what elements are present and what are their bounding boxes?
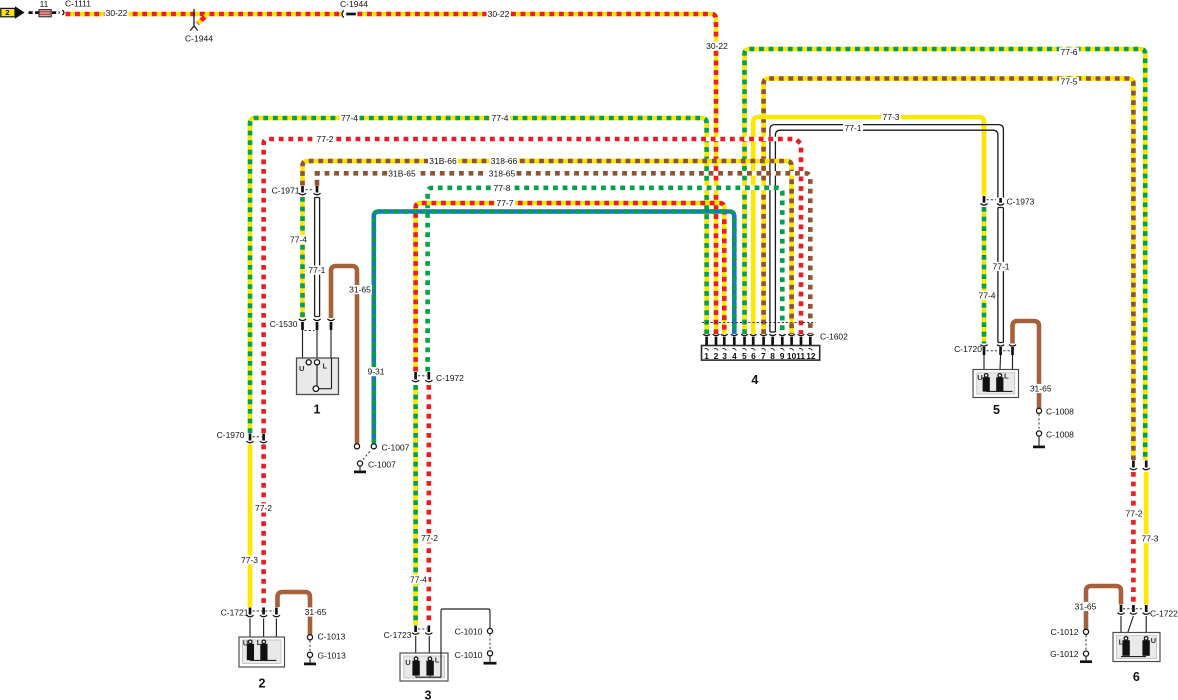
svg-text:30-22: 30-22 xyxy=(106,8,128,18)
wire 77-2 (white/red) right side to C-1722, lamp 6 xyxy=(1131,472,1136,605)
svg-text:L: L xyxy=(1119,637,1124,646)
wire name labels on gaps xyxy=(105,8,1161,617)
splice C-1944 diagonal stub on 30-22 xyxy=(190,9,206,31)
connector C-1973 xyxy=(980,196,1004,205)
svg-text:C-1602: C-1602 xyxy=(820,332,848,342)
svg-text:4: 4 xyxy=(732,351,737,361)
svg-text:C-1722: C-1722 xyxy=(1150,609,1178,619)
svg-text:C-1973: C-1973 xyxy=(1007,197,1035,207)
svg-text:G-1012: G-1012 xyxy=(1050,649,1079,659)
wire 31-65 (solid brown) lamp 1 to C-1007 xyxy=(331,266,357,444)
svg-text:11: 11 xyxy=(796,351,805,361)
svg-text:6: 6 xyxy=(1133,670,1140,684)
svg-text:77-2: 77-2 xyxy=(421,533,438,543)
svg-text:C-1007: C-1007 xyxy=(382,443,410,453)
svg-text:C-1971: C-1971 xyxy=(272,186,300,196)
svg-text:L: L xyxy=(257,638,262,647)
svg-text:77-1: 77-1 xyxy=(992,262,1009,272)
ground branch 31-65 / C-1013 / G-1013 xyxy=(304,635,316,664)
svg-text:3: 3 xyxy=(722,351,727,361)
svg-text:C-1944: C-1944 xyxy=(340,0,368,9)
svg-text:U: U xyxy=(299,364,305,373)
wire 77-5 (yellow/brown) top-right loop, pin 7 to right side xyxy=(764,79,1134,461)
svg-text:77-2: 77-2 xyxy=(316,134,333,144)
svg-text:C-1007: C-1007 xyxy=(368,460,396,470)
connector C-1944 inline xyxy=(342,10,356,17)
connector C-1971 xyxy=(299,186,321,195)
svg-text:10: 10 xyxy=(787,351,797,361)
svg-text:77-4: 77-4 xyxy=(341,113,358,123)
svg-text:C-1013: C-1013 xyxy=(318,632,346,642)
svg-text:77-7: 77-7 xyxy=(496,198,513,208)
wire 77-2 (white/red) left run, C-1970 to C-1602 pin 11 xyxy=(264,139,801,433)
svg-text:C-1111: C-1111 xyxy=(65,0,91,9)
wire 77-1 (white double line) C-1973 to C-1720, lamp 5 xyxy=(998,208,1004,343)
svg-text:31-65: 31-65 xyxy=(1030,384,1052,394)
svg-text:318-66: 318-66 xyxy=(491,156,518,166)
lamp assembly 2 xyxy=(239,637,285,667)
wire 31-65 (solid brown) C-1721 to C-1013 xyxy=(278,592,311,635)
svg-text:6: 6 xyxy=(751,351,756,361)
svg-text:77-3: 77-3 xyxy=(241,555,258,565)
wire 31-65 (solid brown) C-1720 to C-1008 xyxy=(1013,321,1040,408)
ground branch 31-65 / C-1008 xyxy=(1033,408,1045,447)
wire 77-4 (yellow/green) C-1972 to C-1723, lamp 3 xyxy=(413,385,418,625)
svg-text:2: 2 xyxy=(5,8,9,17)
wire 30-22 fuse feed (yellow/red) top run and drop to C-1602 pin 2 xyxy=(66,14,717,334)
svg-text:77-4: 77-4 xyxy=(978,291,995,301)
connector C-1722 xyxy=(1117,605,1149,657)
svg-text:31-65: 31-65 xyxy=(1075,602,1097,612)
svg-text:U: U xyxy=(1151,636,1157,645)
svg-text:L: L xyxy=(435,656,440,665)
svg-text:C-1530: C-1530 xyxy=(270,319,298,329)
svg-text:31-65: 31-65 xyxy=(305,607,327,617)
svg-text:C-1721: C-1721 xyxy=(221,608,249,618)
wire 9-31 (blue/green) C-1007 to C-1602 pin 4 xyxy=(374,212,735,444)
wire 77-3 (solid yellow) pin 6 to C-1973 xyxy=(753,117,984,334)
wire 77-1 (white, double line) pin 8 to C-1973 xyxy=(770,125,1004,332)
svg-text:U: U xyxy=(405,658,411,667)
circuit source arrow 2 (fuse panel feed) xyxy=(1,6,39,18)
svg-text:8: 8 xyxy=(770,351,775,361)
wire 31B-65 / 318-65 (white/brown) C-1971 to C-1602 pin 12 xyxy=(315,171,810,334)
lamp assembly 5 xyxy=(973,370,1019,398)
ground branch C-1007 xyxy=(354,444,376,472)
svg-text:9: 9 xyxy=(780,351,785,361)
wire 77-3 (solid yellow) right side to C-1722, lamp 6 xyxy=(1144,472,1149,605)
lamp assembly 6 xyxy=(1113,633,1160,662)
svg-text:3: 3 xyxy=(425,689,432,700)
svg-text:31-65: 31-65 xyxy=(349,285,371,295)
svg-text:77-3: 77-3 xyxy=(882,112,899,122)
wire 31B-66 / 318-66 (yellow/brown) C-1971 to C-1602 pin 10 xyxy=(303,161,792,334)
wire 77-4 (yellow/green) C-1973 to C-1720, lamp 5 xyxy=(982,207,987,344)
svg-text:11: 11 xyxy=(40,0,49,9)
svg-text:U: U xyxy=(977,373,983,382)
svg-text:1: 1 xyxy=(704,351,709,361)
svg-text:C-1723: C-1723 xyxy=(384,630,412,640)
wire 77-3 (solid yellow) below C-1970 to C-1721 xyxy=(248,445,253,608)
pin hooks and numbers of C-1602 xyxy=(704,349,816,361)
svg-text:318-65: 318-65 xyxy=(489,168,516,178)
svg-text:77-4: 77-4 xyxy=(290,235,307,245)
connector C-1721 xyxy=(246,608,280,661)
svg-text:77-2: 77-2 xyxy=(1125,509,1142,519)
svg-text:77-1: 77-1 xyxy=(308,265,325,275)
svg-text:5: 5 xyxy=(993,403,1000,417)
svg-text:C-1720: C-1720 xyxy=(954,344,982,354)
wire 77-4 (yellow/green) C-1971 to C-1530, lamp 1 xyxy=(300,197,305,318)
svg-text:2: 2 xyxy=(259,677,266,691)
ground wire lamp 3 to C-1010 xyxy=(441,609,497,677)
svg-text:U: U xyxy=(243,638,249,647)
svg-text:77-1: 77-1 xyxy=(844,123,861,133)
connector C-1972 xyxy=(412,372,432,382)
connector C-1970 xyxy=(246,434,267,443)
svg-text:77-4: 77-4 xyxy=(491,113,508,123)
wire 77-2 (white/red) below C-1970 to C-1721 xyxy=(261,445,266,608)
connector C-1723 xyxy=(412,626,432,660)
wire 77-7 (yellow/red) C-1972 to C-1602 pin 3 xyxy=(416,203,725,372)
svg-text:30-22: 30-22 xyxy=(488,9,510,19)
wire 77-2 (white/red) C-1972 to C-1723, lamp 3 xyxy=(426,385,431,625)
svg-text:C-1010: C-1010 xyxy=(455,650,483,660)
svg-text:C-1012: C-1012 xyxy=(1051,627,1079,637)
lamp assembly 1 xyxy=(297,358,339,395)
lamp assembly 3 xyxy=(400,653,448,681)
svg-text:2: 2 xyxy=(714,351,719,361)
svg-text:77-2: 77-2 xyxy=(255,503,272,513)
svg-text:77-6: 77-6 xyxy=(1060,47,1077,57)
svg-text:7: 7 xyxy=(761,351,766,361)
svg-text:77-4: 77-4 xyxy=(410,575,427,585)
svg-text:4: 4 xyxy=(751,373,758,387)
svg-text:31B-65: 31B-65 xyxy=(388,168,416,178)
wire 77-1 (white double line) C-1971 to C-1530, lamp 1 xyxy=(315,198,320,317)
svg-text:C-1010: C-1010 xyxy=(455,627,483,637)
connector C-1602 pins and box (component 4) xyxy=(702,334,820,360)
wire 77-6 (yellow/green) big top-right loop, pin 5 to right side xyxy=(745,49,1146,460)
svg-text:77-5: 77-5 xyxy=(1060,77,1077,87)
svg-text:30-22: 30-22 xyxy=(706,41,728,51)
svg-text:C-1008: C-1008 xyxy=(1046,430,1074,440)
svg-text:5: 5 xyxy=(742,351,747,361)
svg-text:12: 12 xyxy=(806,351,816,361)
connector C-1530 xyxy=(299,319,335,361)
wire 77-8 (white/green) C-1972 to C-1602 pin 9 xyxy=(428,188,783,372)
svg-text:77-8: 77-8 xyxy=(493,183,510,193)
connector C-1720 xyxy=(980,345,1016,391)
wire 77-4 (yellow/green) left run, C-1970 to C-1602 pin 1 xyxy=(250,118,707,433)
svg-text:9-31: 9-31 xyxy=(367,367,384,377)
inline connectors right side (77-5/77-2, 77-6/77-3) xyxy=(1130,461,1150,470)
svg-text:C-1970: C-1970 xyxy=(217,430,245,440)
ground branch 31-65 / C-1012 / G-1012 xyxy=(1080,629,1092,662)
svg-text:G-1013: G-1013 xyxy=(318,651,347,661)
svg-text:L: L xyxy=(1004,372,1009,381)
svg-text:C-1972: C-1972 xyxy=(436,373,464,383)
wire 31-65 (solid brown) C-1722 to C-1012 xyxy=(1086,586,1121,629)
svg-text:1: 1 xyxy=(314,403,321,417)
svg-text:L: L xyxy=(323,362,328,371)
fuse 11 xyxy=(39,10,60,17)
component number labels xyxy=(259,373,1140,700)
connector C-1111 xyxy=(62,10,64,15)
svg-text:77-3: 77-3 xyxy=(1141,534,1158,544)
svg-text:C-1944: C-1944 xyxy=(185,34,213,44)
svg-text:31B-66: 31B-66 xyxy=(429,156,457,166)
connector C-1602 dashed face line xyxy=(702,322,816,324)
svg-text:C-1008: C-1008 xyxy=(1046,407,1074,417)
